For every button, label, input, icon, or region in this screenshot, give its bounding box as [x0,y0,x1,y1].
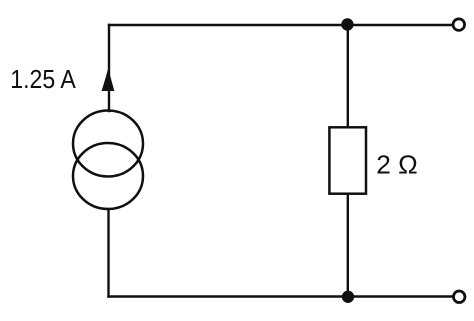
svg-text:2 Ω: 2 Ω [376,150,418,180]
svg-text:1.25 A: 1.25 A [10,64,76,94]
